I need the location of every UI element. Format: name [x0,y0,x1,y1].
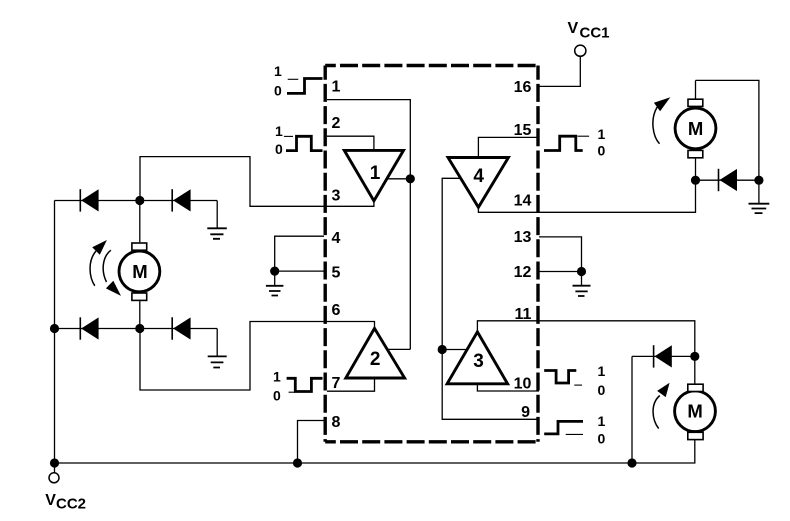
svg-text:4: 4 [473,166,484,187]
svg-text:10: 10 [514,375,532,392]
svg-text:15: 15 [514,122,532,139]
svg-text:1: 1 [332,79,341,96]
svg-text:0: 0 [273,388,281,404]
svg-text:13: 13 [514,229,532,246]
svg-text:2: 2 [332,115,341,132]
svg-text:11: 11 [514,306,531,323]
svg-text:0: 0 [598,143,606,159]
svg-text:1: 1 [275,123,283,139]
svg-text:2: 2 [370,349,381,370]
svg-text:3: 3 [332,188,341,205]
svg-text:14: 14 [514,192,532,209]
svg-text:0: 0 [598,431,606,447]
svg-text:1: 1 [273,369,281,385]
svg-text:V: V [45,492,56,509]
svg-text:12: 12 [514,264,532,281]
svg-text:M: M [132,261,147,282]
svg-text:1: 1 [274,63,282,79]
svg-text:CC2: CC2 [56,495,86,512]
svg-text:M: M [687,401,702,422]
svg-text:M: M [688,118,703,139]
svg-text:8: 8 [332,414,341,431]
svg-text:16: 16 [514,79,532,96]
svg-text:1: 1 [598,363,606,379]
svg-text:1: 1 [370,163,381,184]
svg-text:1: 1 [598,126,606,142]
svg-text:3: 3 [473,351,484,372]
svg-text:5: 5 [332,265,341,282]
svg-text:7: 7 [332,375,341,392]
svg-text:9: 9 [521,404,530,421]
svg-text:1: 1 [598,413,606,429]
svg-text:6: 6 [332,302,341,319]
svg-text:CC1: CC1 [580,25,610,42]
svg-text:V: V [568,20,579,37]
svg-text:0: 0 [598,382,606,398]
svg-text:0: 0 [274,83,282,99]
svg-text:0: 0 [275,141,283,157]
svg-text:4: 4 [332,230,341,247]
